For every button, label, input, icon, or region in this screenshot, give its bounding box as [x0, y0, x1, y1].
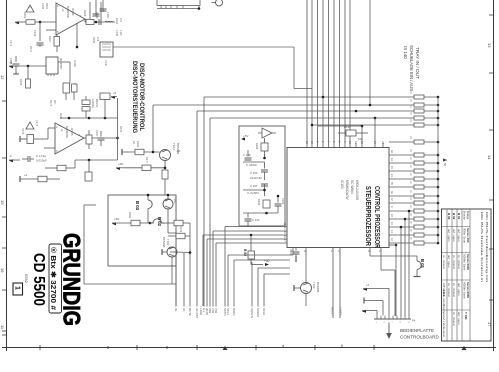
- svg-text:B 01: B 01: [420, 259, 425, 269]
- capacitor C101 stubs at top: [96, 0, 103, 16]
- svg-text:Series 300: Series 300: [466, 228, 470, 243]
- node: [147, 194, 150, 197]
- wire: [243, 161, 265, 163]
- net arrow left border: [9, 65, 13, 68]
- svg-text:C 134: C 134: [252, 218, 260, 222]
- svg-text:Brücke: Brücke: [463, 211, 467, 220]
- capacitor C138: [13, 64, 20, 66]
- node: [277, 195, 280, 198]
- svg-text:D156: D156: [257, 199, 261, 206]
- svg-text:15: 15: [0, 200, 5, 205]
- node: [322, 96, 325, 99]
- svg-text:B 03: B 03: [135, 201, 140, 211]
- svg-text:0.015uF: 0.015uF: [36, 159, 47, 163]
- svg-text:C133: C133: [41, 3, 44, 10]
- resistor R181: [131, 220, 140, 226]
- wire row5: [312, 124, 414, 126]
- connector comb X190: [374, 318, 411, 320]
- svg-text:C172: C172: [9, 40, 12, 47]
- wire: [122, 151, 160, 153]
- svg-text:1: 1: [14, 286, 21, 290]
- svg-text:CD 5500: CD 5500: [30, 253, 47, 306]
- node: [355, 110, 358, 113]
- svg-text:C136: C136: [95, 12, 99, 19]
- svg-text:MUTE: MUTE: [188, 308, 192, 316]
- wire: [89, 2, 91, 19]
- wire riser: [203, 97, 205, 306]
- node junction: [198, 7, 201, 10]
- op-amp U3: [262, 128, 272, 138]
- svg-text:auf : open: auf : open: [447, 255, 451, 268]
- jumper B01: [416, 256, 418, 261]
- net arrow +5: [363, 288, 367, 291]
- resistor R183: [174, 220, 183, 226]
- svg-text:C 154: C 154: [250, 171, 258, 175]
- svg-text:B 02: B 02: [452, 213, 456, 220]
- svg-text:+5D: +5D: [114, 217, 119, 221]
- node: [400, 226, 403, 229]
- svg-text:R181: R181: [128, 212, 132, 219]
- svg-text:RDIST: RDIST: [331, 307, 335, 316]
- frame ticks left: [2, 101, 7, 335]
- node: [27, 65, 30, 68]
- frame ticks bottom: [40, 345, 374, 350]
- border frame: [6, 0, 8, 351]
- net arrow: [116, 167, 120, 170]
- board outline wire: [113, 46, 294, 48]
- node: [265, 212, 268, 215]
- node: [311, 124, 314, 127]
- wire: [20, 138, 27, 140]
- wire riser: [209, 118, 211, 306]
- svg-text:SCLK: SCLK: [262, 308, 266, 315]
- wire staircase: [258, 268, 290, 306]
- wire RDIST: [332, 248, 334, 319]
- svg-text:T192: T192: [173, 197, 177, 204]
- svg-text:-2: -2: [9, 154, 12, 158]
- svg-text:zu : closed: zu : closed: [442, 255, 446, 269]
- svg-text:auf : open: auf : open: [457, 283, 461, 296]
- svg-text:zu : closed: zu : closed: [457, 255, 461, 269]
- node: [408, 210, 411, 213]
- svg-text:R165: R165: [19, 79, 23, 86]
- svg-text:P4: P4: [412, 319, 416, 323]
- box Btx: [49, 244, 62, 313]
- wire: [369, 0, 371, 105]
- svg-text:76D: 76D: [214, 308, 218, 313]
- node: [263, 157, 266, 160]
- svg-text:R162: R162: [136, 141, 140, 148]
- wire: [372, 288, 389, 290]
- wire pin4: [292, 248, 294, 256]
- svg-text:C137: C137: [95, 130, 99, 137]
- transistor T190: [305, 248, 307, 283]
- node: [369, 104, 372, 107]
- node: [167, 194, 170, 197]
- resistor R149: [346, 130, 356, 136]
- svg-text:C 157: C 157: [250, 184, 258, 188]
- connector X102: [100, 42, 113, 57]
- svg-text:R149: R149: [344, 125, 351, 129]
- wire: [243, 225, 285, 227]
- capacitor C136: [99, 19, 101, 25]
- wire: [76, 23, 78, 47]
- ic box IS101: [46, 57, 58, 74]
- wire: [408, 211, 410, 316]
- svg-text:L102: L102: [119, 30, 122, 36]
- wire row3: [197, 110, 414, 112]
- transistor T182: [167, 247, 177, 257]
- svg-text:D135: D135: [59, 113, 62, 120]
- wire output op-amp1: [84, 19, 86, 22]
- svg-text:R163: R163: [115, 18, 118, 25]
- svg-text:DA1D: DA1D: [232, 308, 236, 315]
- svg-text:DISC-MOTORSTEUERUNG: DISC-MOTORSTEUERUNG: [131, 61, 138, 133]
- resistor R164: [86, 135, 92, 144]
- resistor R170: [38, 176, 47, 182]
- wire T190 emitter: [305, 294, 307, 307]
- node: [374, 117, 377, 120]
- resistor ladder right column: [414, 96, 438, 98]
- svg-text:LA204A: LA204A: [91, 99, 94, 108]
- svg-text:zu : closed: zu : closed: [452, 255, 456, 269]
- resistor R178: [162, 170, 168, 179]
- wire: [34, 138, 49, 140]
- svg-text:R167: R167: [48, 36, 52, 43]
- svg-text:B 02: B 02: [157, 217, 162, 227]
- jumper B02: [150, 219, 164, 223]
- wire row4: [210, 117, 414, 119]
- svg-text:zu : closed: zu : closed: [452, 283, 456, 297]
- jumper B03: [147, 195, 149, 200]
- svg-text:2E: 2E: [174, 308, 178, 312]
- svg-text:C174: C174: [35, 120, 38, 127]
- wire pin15: [207, 238, 287, 240]
- svg-text:Series 6000: Series 6000: [466, 282, 470, 298]
- wire T182 emitter: [171, 257, 173, 284]
- svg-text:XC W664: XC W664: [350, 180, 354, 194]
- svg-text:MC-4558: MC-4558: [59, 58, 63, 69]
- svg-text:16: 16: [0, 268, 5, 273]
- table bridge options: [442, 209, 492, 341]
- svg-text:R174: R174: [49, 100, 52, 107]
- svg-text:RC-BUS-Fernbedienung mit: RC-BUS-Fernbedienung mit: [485, 212, 489, 282]
- svg-text:IC150: IC150: [340, 180, 344, 189]
- svg-text:SQSYN: SQSYN: [250, 308, 254, 318]
- wire row1: [204, 96, 414, 98]
- svg-text:CONTROLBOARD: CONTROLBOARD: [400, 335, 439, 340]
- svg-text:M5M6404CW: M5M6404CW: [345, 180, 349, 200]
- board box controlcluster: [108, 195, 176, 266]
- wire: [58, 61, 70, 63]
- op-amp U1 IC135a: [56, 3, 85, 35]
- svg-text:IC135: IC135: [71, 8, 75, 16]
- resistor R161: [26, 20, 35, 25]
- wire: [117, 118, 119, 160]
- node: [189, 251, 192, 254]
- wire: [318, 125, 362, 127]
- resistor R165: [26, 79, 31, 88]
- svg-text:Bridge: Bridge: [466, 211, 470, 220]
- svg-text:IC136: IC136: [73, 60, 76, 67]
- capacitor C175: [27, 135, 34, 144]
- svg-text:SCLT: SCLT: [226, 308, 230, 315]
- svg-text:R163: R163: [83, 10, 87, 17]
- svg-text:-/2: -/2: [61, 8, 65, 12]
- transistor T164: [160, 150, 171, 161]
- svg-text:10K: 10K: [96, 37, 99, 42]
- svg-text:470: 470: [119, 18, 122, 23]
- svg-text:BC846B: BC846B: [316, 282, 320, 293]
- wire pin16: [216, 242, 287, 244]
- node: [68, 117, 71, 120]
- svg-text:L102: L102: [106, 12, 110, 18]
- resistor R166: [63, 83, 70, 93]
- svg-text:12: 12: [0, 75, 5, 80]
- net arrow +50: [265, 263, 269, 266]
- svg-text:IS 140: IS 140: [403, 46, 408, 59]
- capacitor C134b: [245, 219, 252, 221]
- ic box C141: [100, 93, 110, 100]
- diode D136: [82, 100, 90, 105]
- resistor R177: [142, 165, 151, 171]
- svg-text:4 .7u/50V: 4 .7u/50V: [247, 191, 259, 195]
- svg-text:RC BUS Remote Control in: RC BUS Remote Control in: [480, 212, 484, 283]
- svg-text:22uF/16V: 22uF/16V: [250, 176, 262, 180]
- svg-text:T182: T182: [166, 239, 170, 246]
- terminal: [121, 149, 123, 155]
- svg-text:+5D: +5D: [118, 162, 123, 166]
- resistor R163: [86, 20, 94, 25]
- svg-text:zu : closed: zu : closed: [452, 312, 456, 326]
- pin stubs top: [355, 143, 357, 148]
- wire T192 emitter: [167, 209, 169, 233]
- node: [152, 151, 155, 154]
- resistor R172: [72, 84, 78, 92]
- wire: [16, 65, 46, 67]
- resistor R169: [57, 165, 66, 171]
- wire: [35, 21, 56, 23]
- svg-text:+5: +5: [366, 283, 370, 287]
- arrow to controlboard: [388, 323, 390, 336]
- wire riser: [196, 111, 198, 306]
- wire: [364, 300, 383, 302]
- net arrow: [362, 310, 366, 313]
- svg-text:C155: C155: [281, 198, 285, 205]
- frame ticks right: [489, 15, 494, 300]
- wire: [124, 167, 165, 169]
- node: [116, 137, 119, 140]
- wire: [157, 8, 199, 10]
- svg-text:SRDAT: SRDAT: [256, 308, 260, 318]
- node: [395, 244, 398, 247]
- net arrow -50: [443, 159, 447, 162]
- wire: [117, 98, 119, 118]
- capacitor C134: [37, 43, 44, 45]
- wire: [177, 251, 190, 254]
- svg-text:-50: -50: [443, 162, 447, 167]
- terminal: [363, 298, 365, 304]
- node: [76, 46, 79, 49]
- terminal: [161, 249, 163, 255]
- terminal: [19, 136, 21, 142]
- svg-text:auf : open: auf : open: [457, 229, 461, 242]
- node: [404, 218, 407, 221]
- svg-text:T 191 entfernen/ remove: T 191 entfernen/ remove: [442, 285, 446, 338]
- svg-text:B 01: B 01: [457, 213, 461, 220]
- wire bus to processor: [306, 0, 308, 148]
- ic U150 STEUERPROZESSOR box: [287, 148, 389, 248]
- wire fan verticals: [175, 252, 177, 306]
- wire: [250, 259, 252, 265]
- warning triangle symbol: [26, 5, 34, 12]
- svg-text:C 174a: C 174a: [36, 154, 46, 158]
- resistor R186: [261, 143, 268, 151]
- svg-text:R161: R161: [23, 12, 27, 19]
- svg-text:+2: +2: [24, 173, 28, 177]
- wire output op-amp2: [84, 137, 118, 139]
- svg-text:C134: C134: [33, 30, 37, 37]
- svg-text:C175: C175: [21, 128, 25, 135]
- wire: [243, 189, 265, 191]
- wire: [168, 232, 176, 234]
- svg-text:C 188: C 188: [243, 153, 251, 157]
- svg-text:2C: 2C: [182, 308, 186, 312]
- terminal: [293, 285, 295, 291]
- svg-text:LDIST: LDIST: [339, 307, 343, 316]
- capacitor C187: [261, 184, 268, 186]
- inductor L102: [105, 20, 113, 23]
- wire: [44, 147, 55, 149]
- svg-text:R179: R179: [179, 226, 183, 233]
- node: [104, 117, 107, 120]
- svg-text:C140: C140: [104, 60, 107, 67]
- svg-text:6: 6: [341, 344, 343, 348]
- node: [88, 117, 91, 120]
- capacitor C154: [261, 170, 268, 172]
- svg-text:T190: T190: [312, 282, 316, 289]
- wire: [88, 160, 90, 172]
- svg-text:14: 14: [487, 155, 492, 160]
- svg-text:R176: R176: [119, 126, 122, 133]
- warning triangle symbol: [26, 122, 34, 129]
- svg-text:6308-240-008: 6308-240-008: [355, 180, 359, 200]
- node: [361, 125, 364, 128]
- svg-text:5000er Serie: 5000er Serie: [463, 254, 467, 271]
- svg-text:51K: 51K: [358, 137, 363, 141]
- svg-text:R171: R171: [29, 46, 32, 53]
- svg-text:R161: R161: [45, 3, 48, 10]
- wire: [164, 222, 174, 224]
- svg-text:zu : closed: zu : closed: [447, 283, 451, 297]
- wire: [162, 251, 167, 253]
- svg-text:0392: 0392: [24, 274, 29, 284]
- board outline wire right: [293, 47, 295, 89]
- svg-text:R168: R168: [92, 37, 95, 44]
- board box regulator: [239, 126, 285, 226]
- svg-text:0 .022uF: 0 .022uF: [246, 163, 257, 167]
- outer board outline: [83, 205, 85, 284]
- wire: [15, 72, 17, 74]
- svg-text:R186: R186: [255, 143, 259, 150]
- wire: [250, 235, 252, 251]
- wire row2: [153, 104, 414, 106]
- wire pin13: [213, 230, 287, 232]
- svg-text:auf : open: auf : open: [447, 229, 451, 242]
- svg-text:BEDIENPLATTE: BEDIENPLATTE: [400, 328, 434, 333]
- wire: [164, 161, 166, 171]
- wire: [183, 222, 190, 224]
- node: [88, 159, 91, 162]
- connector circle P101: [216, 0, 223, 6]
- wire: [404, 219, 406, 316]
- svg-text:CONTROL PROZESSOR: CONTROL PROZESSOR: [373, 186, 382, 249]
- svg-text:auf : open: auf : open: [452, 229, 456, 242]
- node: [95, 21, 98, 24]
- svg-text:auf : open: auf : open: [457, 312, 461, 325]
- wire bus: [60, 117, 118, 119]
- capacitor C188: [245, 158, 252, 160]
- svg-text:BR-PG: BR-PG: [95, 99, 98, 107]
- node: [164, 167, 167, 170]
- svg-text:1K: 1K: [132, 141, 136, 144]
- wire pin27: [380, 248, 382, 271]
- wire: [243, 212, 278, 214]
- wire: [85, 111, 87, 118]
- svg-text:+2: +2: [9, 60, 13, 64]
- wire: [39, 22, 41, 41]
- svg-text:C106: C106: [289, 249, 293, 256]
- node: [39, 21, 42, 24]
- wire pin14: [203, 234, 287, 236]
- node: [250, 234, 253, 237]
- svg-text:R177: R177: [145, 157, 149, 164]
- capacitor C155: [275, 204, 282, 206]
- svg-text:-/2: -/2: [60, 128, 64, 132]
- svg-text:T 191: T 191: [464, 312, 468, 320]
- svg-text:+5V: +5V: [243, 134, 248, 138]
- diode D82: [248, 251, 255, 259]
- svg-text:HF-OST: HF-OST: [195, 308, 199, 319]
- svg-text:-50: -50: [176, 149, 181, 153]
- net arrow: [112, 222, 116, 225]
- svg-text:4K7: 4K7: [53, 100, 56, 105]
- svg-text:NJM4560: NJM4560: [65, 126, 69, 138]
- wire: [120, 222, 150, 224]
- wire: [389, 244, 396, 246]
- wire pin25 to B01: [369, 248, 371, 257]
- wire: [27, 66, 29, 79]
- svg-text:SCHUBLADE EIN / AUS: SCHUBLADE EIN / AUS: [409, 45, 414, 91]
- svg-text:B 03: B 03: [447, 213, 451, 220]
- net arrow +5V: [111, 96, 115, 99]
- node: [149, 222, 152, 225]
- net arrow left border: [9, 159, 13, 162]
- resistor R179: [176, 233, 185, 239]
- node: [263, 189, 266, 192]
- connector box J101 (cut at top): [157, 0, 200, 6]
- capacitor C106: [295, 248, 297, 251]
- resistor R167 feedback: [54, 37, 60, 47]
- wire: [147, 216, 149, 223]
- wire riser T164 feed: [152, 105, 154, 153]
- wire: [46, 29, 56, 31]
- diode D137: [82, 107, 90, 112]
- box 1: [13, 283, 23, 295]
- svg-text:BC546B: BC546B: [162, 237, 166, 248]
- svg-text:Series 5000: Series 5000: [466, 254, 470, 270]
- svg-text:® Btx ✱ 32700 #: ® Btx ✱ 32700 #: [49, 247, 57, 310]
